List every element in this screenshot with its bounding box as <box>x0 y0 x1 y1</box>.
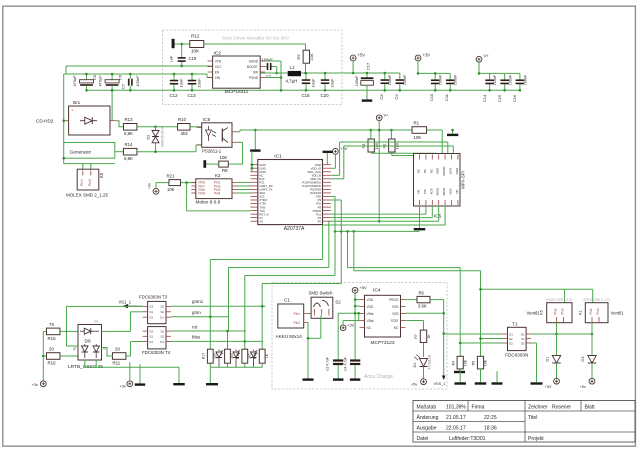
svg-text:Datei: Datei <box>417 436 429 442</box>
svg-text:6,8K: 6,8K <box>124 131 133 136</box>
svg-text:MOLEX SMD 2_1.25: MOLEX SMD 2_1.25 <box>584 297 611 301</box>
svg-text:+5V: +5V <box>358 53 366 58</box>
svg-text:C15: C15 <box>497 94 502 102</box>
svg-text:R13: R13 <box>125 117 134 122</box>
svg-text:S1: S1 <box>150 335 154 339</box>
svg-text:VIN: VIN <box>215 76 221 80</box>
svg-text:1K: 1K <box>265 353 269 358</box>
svg-text:C7: C7 <box>121 83 126 89</box>
svg-text:R8: R8 <box>222 168 228 173</box>
svg-text:6,8K: 6,8K <box>124 156 133 161</box>
svg-text:22.05.17: 22.05.17 <box>446 425 466 431</box>
svg-text:100nF: 100nF <box>355 75 359 86</box>
svg-text:470uF: 470uF <box>72 75 77 87</box>
svg-text:MCP73123: MCP73123 <box>371 340 395 346</box>
svg-text:100nF: 100nF <box>388 74 392 85</box>
svg-text:10uF: 10uF <box>311 78 316 88</box>
svg-text:R18: R18 <box>236 353 240 359</box>
svg-text:D2: D2 <box>147 135 151 140</box>
svg-text:10uF: 10uF <box>179 78 184 88</box>
svg-text:CS!: CS! <box>423 189 427 194</box>
svg-text:S2: S2 <box>335 299 341 304</box>
svg-text:VDD: VDD <box>449 188 453 195</box>
svg-text:Step Down Wandler 5V bis 30V: Step Down Wandler 5V bis 30V <box>222 36 290 42</box>
svg-text:Pin2: Pin2 <box>596 308 600 315</box>
svg-text:D1: D1 <box>160 340 164 344</box>
svg-text:grün1: grün1 <box>192 299 204 304</box>
svg-text:D1: D1 <box>546 357 550 362</box>
svg-text:X0: X0 <box>259 219 263 223</box>
svg-text:Pin2: Pin2 <box>561 308 565 315</box>
svg-text:rot: rot <box>192 324 198 329</box>
svg-text:1K5: 1K5 <box>230 353 234 359</box>
svg-text:3k3: 3k3 <box>181 131 189 136</box>
svg-text:S2: S2 <box>160 335 164 339</box>
svg-text:C20: C20 <box>321 93 330 98</box>
svg-text:NC: NC <box>394 326 399 330</box>
svg-text:10uF: 10uF <box>197 78 202 88</box>
svg-text:10K: 10K <box>220 155 228 160</box>
svg-text:+3v: +3v <box>120 383 127 388</box>
svg-text:1K5: 1K5 <box>214 353 218 359</box>
svg-text:EN: EN <box>215 70 220 74</box>
svg-text:C16: C16 <box>512 94 517 102</box>
svg-text:100nF: 100nF <box>454 74 458 85</box>
svg-text:+3v: +3v <box>32 382 39 387</box>
svg-text:grün: grün <box>192 310 201 315</box>
svg-text:K5: K5 <box>540 310 544 315</box>
svg-text:R16: R16 <box>48 360 57 365</box>
svg-text:Pin1: Pin1 <box>589 308 593 315</box>
svg-text:MPX-SPI: MPX-SPI <box>461 171 466 189</box>
svg-text:100nF: 100nF <box>493 74 497 85</box>
svg-text:CD-HD2: CD-HD2 <box>36 119 54 124</box>
svg-text:Maßstab: Maßstab <box>417 404 437 410</box>
svg-text:rot: rot <box>94 320 98 324</box>
svg-text:D1: D1 <box>160 316 164 320</box>
svg-text:VDD: VDD <box>367 305 374 309</box>
svg-text:PROG: PROG <box>389 298 399 302</box>
svg-text:+5v: +5v <box>411 383 417 387</box>
svg-text:R15: R15 <box>48 336 57 341</box>
svg-text:4,7µH: 4,7µH <box>286 79 298 84</box>
svg-text:100nF: 100nF <box>403 74 407 85</box>
svg-text:Firma: Firma <box>472 404 485 410</box>
svg-text:Pin2: Pin2 <box>294 321 301 325</box>
svg-text:MOLEX SMD 2_1.25: MOLEX SMD 2_1.25 <box>546 297 573 301</box>
svg-text:IC6: IC6 <box>203 117 211 122</box>
svg-text:100nF: 100nF <box>135 75 140 87</box>
svg-text:SMD Switch: SMD Switch <box>309 291 333 296</box>
svg-text:Pin1: Pin1 <box>554 308 558 315</box>
svg-text:C18: C18 <box>302 93 311 98</box>
svg-text:Zeichner: Zeichner <box>528 404 548 410</box>
svg-text:D2: D2 <box>150 329 154 333</box>
svg-text:+5V: +5V <box>360 285 368 290</box>
svg-text:R10: R10 <box>178 117 187 122</box>
svg-text:10K: 10K <box>167 187 175 192</box>
svg-text:D2: D2 <box>521 341 525 345</box>
svg-text:Rosener: Rosener <box>552 404 571 410</box>
svg-text:FDC6303N T3: FDC6303N T3 <box>139 295 168 300</box>
svg-text:R14: R14 <box>125 142 134 147</box>
svg-text:PS2811-1: PS2811-1 <box>202 149 222 154</box>
svg-text:FDC6303N: FDC6303N <box>505 353 528 358</box>
svg-text:10K: 10K <box>414 135 422 140</box>
svg-text:FY1112H: FY1112H <box>428 354 432 369</box>
svg-text:S2: S2 <box>160 305 164 309</box>
svg-text:20: 20 <box>115 346 120 351</box>
svg-text:Titel: Titel <box>528 415 537 421</box>
svg-text:Luftfeder:T3D01: Luftfeder:T3D01 <box>449 436 486 442</box>
svg-text:Projekt: Projekt <box>528 436 544 442</box>
svg-text:VBat: VBat <box>367 319 374 323</box>
svg-text:K2: K2 <box>215 173 221 178</box>
svg-text:Pin1: Pin1 <box>80 179 84 186</box>
svg-text:R19: R19 <box>253 353 257 359</box>
svg-text:MCP16311: MCP16311 <box>225 89 249 95</box>
svg-text:+5v: +5v <box>580 385 586 389</box>
svg-text:100nF: 100nF <box>508 74 512 85</box>
svg-text:20: 20 <box>49 346 54 351</box>
svg-text:S2: S2 <box>509 337 513 341</box>
svg-text:NC: NC <box>367 326 372 330</box>
svg-text:75: 75 <box>49 322 54 327</box>
svg-text:C1: C1 <box>284 298 290 303</box>
svg-text:S2: S2 <box>160 329 164 333</box>
svg-text:MISO: MISO <box>436 187 440 195</box>
svg-text:Pin1: Pin1 <box>294 312 301 316</box>
svg-text:R21: R21 <box>167 173 176 178</box>
svg-text:100nF: 100nF <box>439 74 443 85</box>
svg-text:1K: 1K <box>427 334 431 339</box>
svg-text:SCK: SCK <box>449 168 453 174</box>
svg-text:18:36: 18:36 <box>484 425 497 431</box>
svg-text:D6: D6 <box>85 339 91 345</box>
svg-text:D4: D4 <box>413 363 417 368</box>
svg-text:VDD: VDD <box>367 298 374 302</box>
svg-text:IC2: IC2 <box>214 51 222 57</box>
svg-text:VFB: VFB <box>215 59 221 63</box>
svg-text:STAT: STAT <box>391 319 399 323</box>
svg-text:C8: C8 <box>379 94 384 100</box>
svg-text:10uF: 10uF <box>330 78 335 88</box>
svg-text:C12: C12 <box>170 93 179 98</box>
svg-text:R1: R1 <box>414 121 420 126</box>
svg-text:R17: R17 <box>201 353 205 359</box>
svg-text:SDO: SDO <box>436 167 440 174</box>
svg-text:Ausgabe: Ausgabe <box>417 425 437 431</box>
svg-text:R6: R6 <box>419 291 425 296</box>
svg-text:22:25: 22:25 <box>484 415 497 421</box>
svg-text:ACK: ACK <box>429 188 433 194</box>
svg-text:S2: S2 <box>160 310 164 314</box>
svg-text:S1: S1 <box>150 310 154 314</box>
svg-text:+3V: +3V <box>423 53 431 58</box>
svg-text:IC1: IC1 <box>274 153 282 159</box>
svg-text:Accu Charge: Accu Charge <box>364 374 393 380</box>
svg-text:D3: D3 <box>581 357 585 362</box>
svg-text:IC5: IC5 <box>434 214 442 220</box>
svg-text:Pin8: Pin8 <box>199 191 206 195</box>
svg-text:1uF: 1uF <box>170 55 174 62</box>
svg-text:AKKU 50x14: AKKU 50x14 <box>276 334 303 339</box>
svg-text:Ventil1: Ventil1 <box>611 311 625 316</box>
svg-text:K5: K5 <box>99 172 104 178</box>
svg-text:Br1: Br1 <box>73 100 81 105</box>
svg-text:FDC6303N T4: FDC6303N T4 <box>142 350 171 355</box>
svg-text:SW: SW <box>253 70 258 74</box>
svg-text:C10: C10 <box>429 93 434 101</box>
svg-text:D2: D2 <box>150 305 154 309</box>
svg-text:VCC: VCC <box>215 65 222 69</box>
svg-text:C17: C17 <box>366 62 371 70</box>
svg-text:G2: G2 <box>509 341 513 345</box>
svg-text:D1: D1 <box>150 340 154 344</box>
svg-text:100nF: 100nF <box>523 74 527 85</box>
svg-text:GND: GND <box>455 167 459 175</box>
svg-text:VS1_1: VS1_1 <box>119 299 132 304</box>
svg-text:blau: blau <box>192 335 201 340</box>
svg-text:21.05.17: 21.05.17 <box>446 415 466 421</box>
svg-text:R11: R11 <box>113 360 121 365</box>
svg-text:101,39%: 101,39% <box>446 404 466 410</box>
svg-text:470uF: 470uF <box>98 75 103 87</box>
svg-text:AGND: AGND <box>249 59 259 63</box>
svg-text:+5V: +5V <box>545 385 552 389</box>
svg-text:V+: V+ <box>484 54 490 59</box>
svg-text:+3v: +3v <box>148 183 152 189</box>
svg-text:Generator: Generator <box>70 150 92 156</box>
svg-text:MOSI: MOSI <box>442 188 446 196</box>
svg-text:SMAJ5.0CA: SMAJ5.0CA <box>161 126 165 147</box>
svg-text:Pin2: Pin2 <box>88 179 92 186</box>
svg-text:C14: C14 <box>482 94 487 102</box>
svg-text:10K: 10K <box>463 359 467 366</box>
svg-text:K1: K1 <box>578 310 582 315</box>
svg-text:C11: C11 <box>444 93 449 101</box>
svg-text:L1: L1 <box>290 65 296 70</box>
svg-text:R12: R12 <box>191 34 200 39</box>
svg-text:C4 4.7uF: C4 4.7uF <box>344 357 348 371</box>
svg-text:R4: R4 <box>451 361 455 366</box>
svg-text:P0: P0 <box>318 219 322 223</box>
svg-text:10K: 10K <box>191 49 200 54</box>
svg-text:Molex 8 0.8: Molex 8 0.8 <box>196 200 221 206</box>
svg-text:MOLEX SMD 2_1,25: MOLEX SMD 2_1,25 <box>66 193 109 198</box>
svg-text:IC4: IC4 <box>373 288 381 294</box>
svg-text:+3V: +3V <box>347 323 354 327</box>
svg-text:C19: C19 <box>189 56 197 61</box>
svg-text:R9: R9 <box>296 54 301 60</box>
svg-text:D1: D1 <box>150 316 154 320</box>
svg-text:S1: S1 <box>521 337 525 341</box>
svg-text:Pin4: Pin4 <box>214 191 221 195</box>
svg-text:Ventil2: Ventil2 <box>527 311 541 316</box>
svg-text:VBat: VBat <box>367 312 374 316</box>
svg-text:10K: 10K <box>309 53 314 60</box>
svg-text:10K: 10K <box>484 359 488 366</box>
svg-text:A20737A: A20737A <box>284 226 305 232</box>
svg-text:PGND: PGND <box>249 76 259 80</box>
svg-text:3.9K: 3.9K <box>418 304 427 309</box>
svg-text:C9: C9 <box>394 94 399 100</box>
svg-text:BOOST: BOOST <box>247 65 258 69</box>
svg-text:VSS: VSS <box>392 312 398 316</box>
svg-text:G1: G1 <box>509 332 513 336</box>
svg-text:C6: C6 <box>118 74 123 80</box>
svg-text:R5: R5 <box>472 361 476 366</box>
svg-text:V+: V+ <box>384 112 390 117</box>
svg-text:C13: C13 <box>188 93 197 98</box>
svg-text:Blatt: Blatt <box>585 404 596 410</box>
svg-text:1K5: 1K5 <box>247 353 251 359</box>
svg-text:C5: C5 <box>92 74 97 80</box>
svg-text:VSS_1: VSS_1 <box>434 382 446 386</box>
svg-text:T1: T1 <box>512 321 518 327</box>
svg-text:R7: R7 <box>414 334 418 338</box>
svg-text:Änderung: Änderung <box>417 414 439 421</box>
svg-text:D1: D1 <box>521 332 525 336</box>
svg-text:C3 4.7uF: C3 4.7uF <box>326 357 330 371</box>
svg-text:VSS: VSS <box>392 305 398 309</box>
svg-text:MODE: MODE <box>442 167 446 176</box>
